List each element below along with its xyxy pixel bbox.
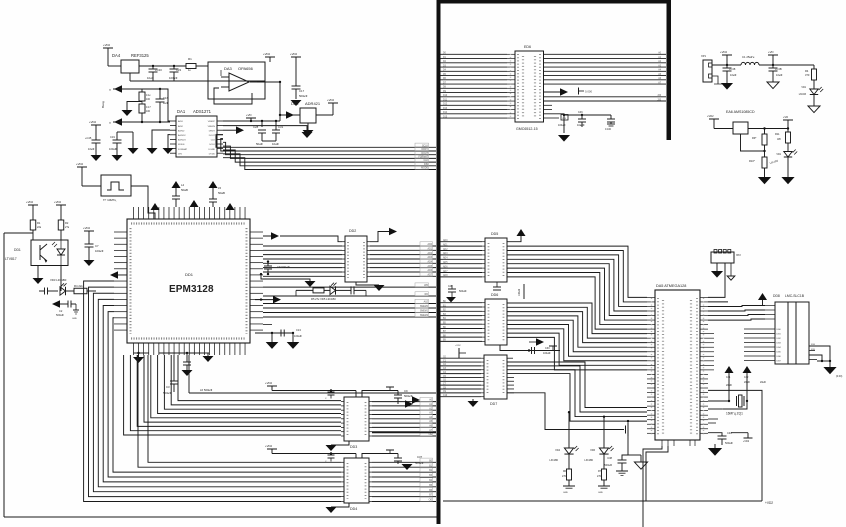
bus DD5 left (9 wires)	[441, 241, 483, 243]
power flag +VD	[103, 47, 113, 49]
svg-text:0.17: 0.17	[146, 106, 151, 109]
svg-text:SCLK: SCLK	[422, 145, 428, 147]
svg-text:L6 500нФ: L6 500нФ	[200, 388, 212, 392]
svg-text:AD0: AD0	[428, 243, 433, 246]
capacitor C40	[708, 433, 722, 436]
svg-text:OPA656: OPA656	[238, 66, 254, 71]
svg-text:+VD2: +VD2	[89, 120, 97, 124]
ground flag C38	[616, 470, 628, 472]
svg-text:DGND: DGND	[209, 149, 216, 151]
adc DA1 ADS1271	[176, 116, 217, 157]
bus DD7 to DA5 (4 wires)	[507, 362, 647, 408]
svg-text:DD1: DD1	[185, 272, 194, 277]
svg-text:VD4: VD4	[555, 449, 560, 452]
svg-text:AD7: AD7	[428, 273, 433, 276]
svg-text:AIN1: AIN1	[178, 120, 184, 123]
wire DD4 vcc rail	[272, 453, 356, 455]
svg-text:10нФ: 10нФ	[776, 73, 782, 77]
capacitor C28	[255, 121, 257, 127]
svg-text:50мВ: 50мВ	[218, 191, 225, 195]
capacitor right DD5	[496, 282, 498, 287]
bus EPM bottom to DD3 (9 wires)	[178, 355, 341, 401]
power arrows on EPM top pins	[151, 203, 160, 210]
svg-text:100: 100	[146, 110, 151, 113]
svg-text:+VD2: +VD2	[265, 444, 273, 448]
wire XP2 to DA5	[708, 263, 725, 297]
svg-text:AD1: AD1	[428, 247, 433, 250]
wire DA4 in	[108, 65, 121, 67]
svg-text:C42: C42	[744, 376, 749, 379]
capacitor C4B 10nF	[772, 65, 774, 68]
capacitor series	[44, 290, 45, 292]
svg-text:20нФ: 20нФ	[760, 381, 766, 384]
register DD2	[345, 236, 367, 282]
node flag 0.000	[578, 88, 580, 95]
ground divider	[141, 101, 143, 103]
svg-text:AD1: AD1	[443, 243, 448, 246]
connector XP1	[703, 60, 712, 82]
svg-text:L3C1B: L3C1B	[799, 93, 807, 96]
capacitor far right	[582, 114, 611, 116]
wire sheet1 left rail	[3, 233, 5, 517]
svg-text:DOUT: DOUT	[421, 153, 428, 155]
register DD4	[344, 458, 369, 503]
ground DD8	[823, 367, 836, 374]
svg-text:(0.00): (0.00)	[836, 375, 842, 378]
ground C40	[715, 444, 722, 446]
svg-text:C1 25мГн: C1 25мГн	[742, 55, 755, 59]
power flag +VD	[246, 117, 256, 119]
transistor VT1	[625, 426, 627, 434]
svg-text:+VD2: +VD2	[265, 381, 273, 385]
svg-text:SMEM2: SMEM2	[420, 315, 429, 317]
ground C8	[261, 274, 310, 281]
svg-text:GND: GND	[598, 492, 603, 494]
svg-text:LTV817: LTV817	[5, 257, 17, 261]
svg-text:+VD2: +VD2	[327, 98, 335, 102]
svg-text:+VD2: +VD2	[765, 501, 773, 505]
wire L6 rail	[188, 355, 190, 393]
svg-text:+VD2: +VD2	[103, 43, 111, 47]
svg-text:DD4: DD4	[350, 507, 357, 511]
svg-text:DA1: DA1	[177, 109, 186, 114]
resistor R9	[764, 129, 766, 135]
wire opto input	[4, 232, 33, 234]
arrow	[52, 300, 60, 308]
svg-text:AD3: AD3	[443, 252, 448, 255]
sheet2 right border (thick)	[667, 0, 672, 140]
power flag +VD2	[722, 54, 732, 56]
wire XP1 pin2	[712, 76, 718, 84]
wire DA2 left	[280, 114, 300, 116]
svg-text:L4: L4	[181, 183, 185, 187]
svg-text:100нФ: 100нФ	[95, 249, 103, 253]
ground DD3	[331, 441, 349, 445]
svg-text:D12: D12	[443, 104, 448, 106]
svg-text:REF3125: REF3125	[131, 53, 149, 58]
svg-text:D15: D15	[443, 116, 448, 118]
wire VREFP	[223, 120, 280, 122]
svg-text:AD6: AD6	[443, 265, 448, 268]
svg-text:SCLK: SCLK	[209, 144, 215, 146]
ground DA2	[307, 123, 309, 130]
svg-text:AGND2: AGND2	[178, 134, 186, 137]
svg-text:DD3: DD3	[350, 445, 357, 449]
svg-text:+VD2: +VD2	[707, 114, 714, 118]
svg-text:D10: D10	[443, 95, 448, 97]
svg-text:C41: C41	[726, 376, 731, 379]
led VD5	[324, 289, 330, 291]
svg-text:C9: C9	[404, 389, 408, 393]
wire ED6 nc	[544, 104, 553, 106]
svg-text:DRDY: DRDY	[209, 130, 216, 132]
svg-text:+VD: +VD	[246, 113, 252, 117]
led VD2 L3C1B0	[784, 152, 792, 158]
power flag DD7	[458, 348, 460, 358]
svg-text:SMEM0: SMEM0	[420, 306, 429, 308]
bus DA1 to right (7 wires)	[216, 135, 436, 148]
capacitor C48 10nF	[726, 65, 728, 68]
ground flag R7	[598, 485, 610, 487]
ground VD2	[781, 177, 794, 184]
svg-text:C10: C10	[443, 395, 448, 397]
svg-text:C19: C19	[110, 135, 115, 139]
register DD5	[485, 238, 507, 282]
resistor R5 27k	[295, 290, 297, 296]
oscillator G1	[101, 175, 131, 196]
power flag +VD2 DA3	[265, 56, 275, 58]
power flag DD4 rail	[267, 448, 277, 450]
svg-text:500нФ: 500нФ	[299, 94, 307, 98]
capacitor C16 1nF	[159, 89, 161, 99]
svg-text:ED6: ED6	[524, 45, 531, 49]
svg-text:0.000: 0.000	[585, 90, 592, 94]
svg-text:AGND: AGND	[178, 129, 185, 132]
svg-text:+VD2: +VD2	[263, 52, 271, 56]
wire DA4 out	[139, 65, 186, 67]
svg-text:R10*: R10*	[749, 159, 755, 163]
resistor divider R3	[141, 101, 143, 104]
svg-text:+C48: +C48	[729, 67, 736, 71]
svg-text:DA2: DA2	[291, 101, 300, 106]
svg-text:C8 500нФ: C8 500нФ	[277, 265, 290, 269]
resistor R4 22k	[74, 288, 87, 294]
ground C7	[84, 260, 95, 266]
svg-text:R1: R1	[188, 57, 192, 61]
svg-text:VREFN: VREFN	[208, 126, 216, 128]
svg-text:MODE: MODE	[178, 144, 185, 146]
ground	[291, 100, 302, 106]
svg-text:OE: OE	[429, 500, 433, 502]
led VD6 L3C1B0	[603, 417, 605, 448]
svg-text:×: ×	[109, 121, 111, 125]
arrow	[260, 298, 262, 300]
register DD7	[484, 355, 507, 399]
svg-text:FORMAT: FORMAT	[178, 148, 188, 151]
capacitor C45 10nF	[92, 139, 101, 141]
svg-text:100нФ: 100нФ	[109, 147, 117, 151]
arrow	[236, 126, 244, 134]
wire agnd rail	[96, 131, 160, 133]
wire DD3 vcc rail	[272, 390, 356, 392]
capacitor C46	[564, 114, 582, 116]
wire EA6 adj	[741, 134, 765, 151]
ground DD5	[446, 297, 456, 302]
svg-text:+VD2: +VD2	[26, 200, 34, 204]
resistor R4 370	[812, 69, 817, 80]
op-amp DA3 OPA656	[208, 62, 265, 99]
svg-text:AD8: AD8	[443, 274, 448, 277]
svg-text:C2: C2	[59, 309, 63, 313]
power flag C7	[84, 230, 94, 232]
inductor C1 25uH	[741, 62, 746, 65]
svg-text:AGND3: AGND3	[178, 139, 186, 142]
arrow DD2 top out	[370, 232, 389, 242]
wire DD7 out short	[507, 357, 513, 359]
svg-text:500нФ: 500нФ	[725, 441, 733, 445]
svg-text:D14: D14	[443, 112, 448, 114]
svg-text:10нФ: 10нФ	[272, 142, 279, 146]
svg-text:AD6: AD6	[428, 269, 433, 272]
mcu DA5 ATMEGA128	[655, 290, 700, 440]
inductor L5	[209, 181, 218, 188]
svg-text:VD6: VD6	[590, 449, 595, 452]
power flag C37	[386, 449, 394, 451]
svg-text:50нФ: 50нФ	[256, 142, 263, 146]
svg-text:R1: R1	[37, 221, 41, 225]
power flag +VD	[768, 54, 778, 56]
ground	[721, 83, 733, 90]
svg-text:EPM3128: EPM3128	[169, 284, 214, 295]
led VD3	[60, 287, 66, 295]
display DD8 LMC-SLC1B	[775, 302, 809, 364]
wire DA4 gnd	[129, 73, 131, 81]
wire epm pin stub rows	[263, 324, 272, 326]
svg-text:+VD2: +VD2	[720, 50, 728, 54]
wire to R4	[813, 65, 815, 69]
wire EPM left pins	[114, 238, 127, 240]
ground GND symbol	[75, 304, 77, 310]
bus DD8 data (8 wires)	[744, 328, 775, 330]
svg-text:MODE: MODE	[421, 168, 428, 170]
svg-text:DIN: DIN	[424, 164, 428, 166]
bus ED6 right (8 wires)	[544, 53, 667, 55]
svg-text:DRDY: DRDY	[421, 149, 428, 151]
resistor R6 270	[567, 469, 572, 480]
capacitor C37 500nF	[362, 454, 398, 459]
svg-text:AD2: AD2	[428, 252, 433, 255]
svg-text:100: 100	[146, 98, 151, 101]
capacitor C22 100nF	[173, 65, 175, 67]
arrow EPM left	[110, 271, 118, 279]
svg-text:100нФ: 100нФ	[169, 76, 177, 80]
svg-text:ADR421: ADR421	[305, 101, 321, 106]
svg-text:R11: R11	[775, 132, 780, 136]
svg-text:AIN2: AIN2	[178, 125, 184, 128]
svg-text:C7: C7	[95, 244, 99, 248]
capacitor C9 500nF	[392, 390, 394, 392]
svg-text:VD3 L3C1B0: VD3 L3C1B0	[50, 278, 67, 282]
svg-text:AD4: AD4	[443, 257, 448, 260]
arrow EPM out	[263, 235, 271, 237]
ground XP2	[716, 263, 718, 271]
svg-text:R2: R2	[65, 221, 69, 225]
power flag C40	[747, 433, 749, 438]
svg-text:OE: OE	[429, 434, 433, 436]
wire DD8 right	[809, 346, 830, 367]
capacitor C15	[563, 114, 565, 116]
svg-text:16МГц ZQ1: 16МГц ZQ1	[726, 412, 743, 416]
svg-text:+VD2: +VD2	[290, 52, 298, 56]
register DD3	[344, 397, 369, 441]
wire AIN1	[160, 89, 170, 121]
bus DD3 out (9 wires)	[372, 401, 436, 403]
svg-text:DD2: DD2	[349, 229, 356, 233]
bus EPM left wrap to DD4 (9 wires)	[148, 355, 341, 462]
svg-text:DVDD: DVDD	[209, 153, 216, 155]
wire DA3 input	[196, 66, 219, 76]
capacitor DD4 rail	[330, 452, 332, 454]
svg-text:10нФ: 10нФ	[88, 147, 94, 151]
svg-text:C49: C49	[448, 286, 453, 288]
resistor divider R2	[141, 89, 143, 92]
wire opto out	[60, 266, 62, 292]
capacitor C30	[500, 345, 560, 351]
power flag R2	[56, 204, 66, 206]
svg-text:XP2: XP2	[736, 254, 741, 257]
svg-text:500нФ: 500нФ	[56, 313, 64, 317]
svg-text:500нФ: 500нФ	[604, 463, 612, 467]
capacitor C13	[280, 330, 282, 337]
power flag DD3 rail	[267, 385, 277, 387]
svg-text:L5: L5	[218, 186, 222, 190]
ground open VT1	[628, 454, 641, 456]
svg-text:AD4: AD4	[428, 260, 433, 263]
wire sheet1 bottom rail	[4, 516, 438, 518]
power flag +VD2 EA6	[709, 118, 719, 120]
svg-text:1нФ: 1нФ	[163, 101, 168, 105]
display ED6	[515, 51, 544, 122]
capacitor C2 500nF	[67, 300, 69, 301]
resistor R2 27k	[58, 220, 64, 230]
wire EA6 out	[748, 128, 788, 130]
svg-text:GMC6512-15: GMC6512-15	[516, 127, 538, 131]
power flag R1	[28, 204, 38, 206]
ground EPM bottom 2	[199, 352, 209, 354]
svg-text:DD5: DD5	[491, 232, 498, 236]
ground	[128, 148, 139, 154]
svg-text:SMEM1: SMEM1	[420, 311, 429, 313]
bus EPM to DD2 (8 wires)	[263, 245, 342, 247]
svg-text:GND: GND	[72, 318, 77, 320]
capacitor C3 500nF	[173, 355, 175, 381]
capacitor C31	[275, 120, 277, 122]
voltage reference DA4 REF3125	[121, 60, 139, 73]
svg-text:VD1: VD1	[801, 86, 806, 89]
connector XP2	[711, 252, 734, 263]
svg-text:R9*: R9*	[752, 136, 756, 140]
svg-text:50мВ: 50мВ	[181, 188, 188, 192]
wire DA5 right stubs	[708, 333, 714, 335]
power flag C30	[549, 345, 557, 347]
wire to DD2 clock	[280, 236, 342, 242]
bus DD7 left (11 wires)	[441, 357, 482, 359]
ground ED6	[558, 135, 570, 142]
wire DA3 to ADC	[279, 82, 281, 121]
ground	[91, 155, 102, 161]
capacitor C38 500nF	[622, 455, 628, 460]
svg-text:LMC-SLC1B: LMC-SLC1B	[785, 294, 805, 298]
svg-text:×: ×	[109, 88, 111, 92]
capacitor DD3 rail	[330, 389, 332, 391]
svg-text:+VD2: +VD2	[76, 162, 84, 166]
arrow DD3	[398, 403, 406, 405]
svg-text:C13: C13	[296, 328, 301, 332]
sheet2 left border (thick)	[437, 0, 441, 524]
svg-text:L3C1B0: L3C1B0	[549, 459, 558, 462]
svg-text:AD3: AD3	[428, 256, 433, 259]
svg-text:500нФ: 500нФ	[459, 290, 467, 293]
svg-text:DA4: DA4	[112, 53, 121, 58]
voltage reference DA2 ADR421	[300, 108, 316, 123]
svg-text:10анФ: 10анФ	[577, 124, 585, 127]
svg-text:DOUT: DOUT	[209, 135, 216, 137]
wire XP1 pin1	[712, 64, 741, 66]
ground DD7	[472, 399, 474, 401]
svg-text:L3C1B0: L3C1B0	[584, 459, 593, 462]
svg-text:EA6 AMS1085CD: EA6 AMS1085CD	[726, 110, 755, 114]
svg-text:370: 370	[805, 73, 810, 77]
power flag +VD2 lower-left	[91, 124, 101, 126]
resistor R7 270	[602, 469, 607, 480]
wire EPM aux gnd row	[255, 332, 293, 334]
ground flag R6	[563, 485, 575, 487]
capacitor C8 500nF	[260, 273, 262, 275]
ground R10	[758, 177, 771, 184]
wire R1 to DA3	[196, 65, 208, 67]
svg-text:270: 270	[597, 475, 602, 478]
resistor R1 22k	[30, 220, 36, 230]
power flag C9	[386, 386, 394, 388]
svg-text:AD7: AD7	[443, 270, 448, 273]
svg-text:VD1: VD1	[776, 153, 781, 156]
svg-text:+VD2: +VD2	[83, 226, 91, 230]
ground open VD1	[808, 106, 820, 113]
svg-text:VREFP: VREFP	[208, 121, 216, 123]
wire XTAL1	[708, 400, 729, 402]
wire DA5 bottom left	[643, 446, 662, 527]
optocoupler DD1 LTV817	[31, 240, 68, 266]
register DD6	[485, 299, 507, 345]
svg-text:3/8: 3/8	[777, 137, 781, 141]
capacitor VD5	[350, 286, 352, 294]
ground DD2	[356, 282, 379, 285]
ground DA1 pins	[152, 130, 170, 148]
svg-text:C3: C3	[166, 385, 170, 389]
resistor R1	[186, 64, 196, 69]
svg-text:+C45: +C45	[85, 136, 92, 140]
svg-text:100нФ: 100нФ	[558, 124, 566, 127]
svg-text:+VD: +VD	[768, 50, 774, 54]
svg-text:DIN: DIN	[178, 153, 182, 155]
svg-text:R4: R4	[805, 69, 809, 73]
ground open	[767, 82, 779, 89]
ground opto	[37, 266, 39, 279]
arrow C30	[536, 338, 544, 346]
svg-text:500нФ: 500нФ	[404, 394, 412, 398]
ground XP2 small	[730, 263, 732, 276]
svg-text:+VD2: +VD2	[743, 440, 750, 443]
